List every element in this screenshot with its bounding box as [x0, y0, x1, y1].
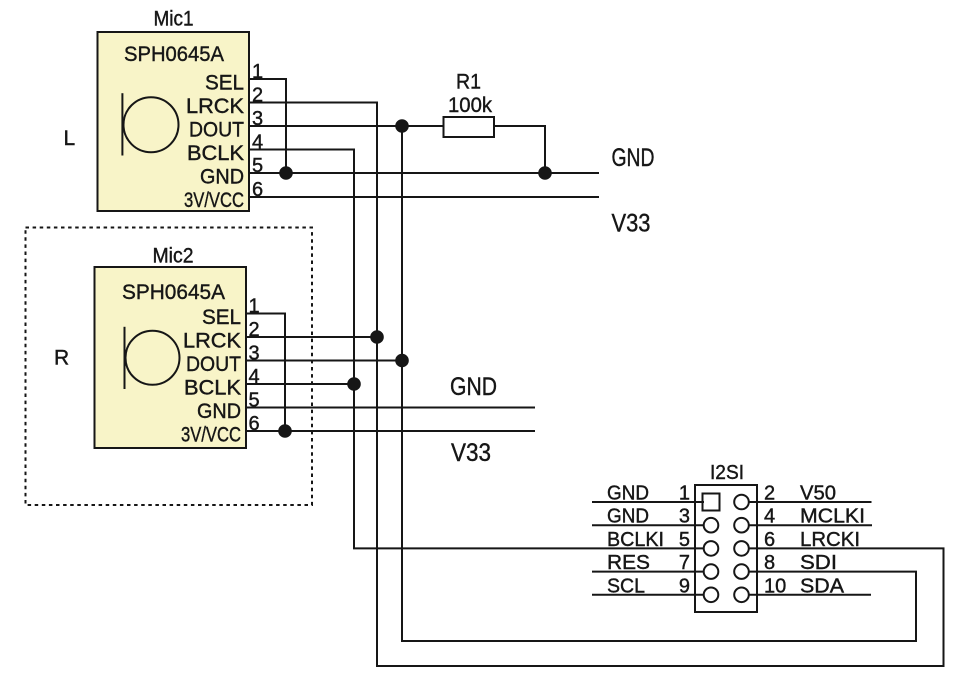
svg-text:6: 6: [764, 529, 775, 551]
I2SI pin 1 square pad: [703, 494, 720, 511]
junction dot Mic2 LRCK net: [370, 330, 384, 344]
svg-text:DOUT: DOUT: [186, 353, 241, 376]
wire Mic2 GND to net label: [246, 407, 535, 409]
wire net LRCK: Mic1 LRCK down and around to I2SI pin 6 LRCKI: [249, 103, 944, 667]
wire Mic2 BCLK to BCLK net: [246, 383, 354, 385]
wire I2SI pin 4 MCLKI stub: [749, 524, 872, 526]
wire I2SI pin 3 GND stub: [592, 524, 704, 526]
svg-text:RES: RES: [607, 552, 650, 574]
svg-text:BCLK: BCLK: [187, 142, 244, 165]
resistor R1 right lead down to GND wire: [494, 126, 545, 173]
junction dot Mic1 SEL/GND: [279, 166, 293, 180]
svg-text:GND: GND: [612, 144, 655, 172]
svg-text:V50: V50: [800, 483, 836, 505]
I2SI pin 3 pad: [704, 518, 719, 533]
wire net DOUT: down and around to I2SI pin 8 SDI: [402, 126, 916, 641]
I2SI pin 5 pad: [704, 541, 719, 556]
I2SI pin 10 pad: [734, 588, 749, 603]
wire I2SI pin 7 RES stub: [592, 571, 704, 573]
svg-text:V33: V33: [612, 210, 651, 238]
svg-text:Mic1: Mic1: [154, 8, 194, 31]
svg-text:100k: 100k: [448, 94, 492, 117]
wire Mic1 DOUT to R1 left lead: [249, 125, 444, 127]
svg-text:LRCKI: LRCKI: [800, 529, 860, 551]
svg-text:BCLKI: BCLKI: [607, 529, 664, 551]
wire I2SI pin 2 V50 stub: [749, 501, 872, 503]
svg-text:BCLK: BCLK: [184, 377, 241, 400]
microphone Mic1 body (SPH0645A): [98, 32, 250, 211]
wire Mic2 DOUT to DOUT net: [246, 360, 402, 362]
svg-text:10: 10: [764, 575, 786, 597]
svg-text:SPH0645A: SPH0645A: [124, 43, 224, 66]
svg-text:1: 1: [679, 483, 690, 505]
Mic1 mic symbol diaphragm line: [121, 93, 123, 155]
svg-text:2: 2: [764, 483, 775, 505]
svg-text:LRCK: LRCK: [183, 330, 241, 353]
wire I2SI pin 9 SCL stub: [592, 594, 704, 596]
svg-text:GND: GND: [200, 166, 244, 189]
svg-text:Mic2: Mic2: [153, 245, 194, 268]
Mic2 mic symbol circle: [126, 331, 180, 385]
svg-text:SEL: SEL: [202, 306, 241, 329]
svg-text:8: 8: [764, 552, 775, 574]
wire net BCLK: Mic1 BCLK down to I2SI pin 5 BCLKI: [249, 150, 704, 549]
svg-text:R: R: [54, 347, 69, 370]
svg-text:V33: V33: [451, 439, 491, 467]
svg-text:5: 5: [679, 529, 690, 551]
I2SI pin 7 pad: [704, 564, 719, 579]
svg-text:SDA: SDA: [800, 575, 845, 597]
svg-text:GND: GND: [450, 373, 497, 401]
svg-text:I2SI: I2SI: [710, 462, 744, 484]
wire I2SI pin 1 GND stub: [592, 501, 704, 503]
junction dot R1/GND: [538, 166, 552, 180]
wire Mic2 SEL tie to 3V/VCC row: [246, 314, 285, 432]
svg-text:GND: GND: [607, 506, 649, 528]
junction dot Mic1 DOUT net: [395, 119, 409, 133]
svg-text:MCLKI: MCLKI: [800, 506, 865, 528]
svg-text:SCL: SCL: [607, 575, 645, 597]
svg-text:R1: R1: [456, 71, 481, 94]
connector I2SI body: [695, 485, 757, 612]
svg-text:GND: GND: [197, 400, 241, 423]
wire Mic2 LRCK to LRCK net: [246, 336, 377, 338]
Mic1 mic symbol circle: [124, 97, 179, 152]
I2SI pin 6 pad: [734, 541, 749, 556]
svg-text:L: L: [64, 127, 76, 150]
Mic2 mic symbol diaphragm line: [124, 327, 126, 389]
wire Mic1 SEL tie to GND row: [249, 79, 286, 173]
svg-text:LRCK: LRCK: [186, 95, 244, 118]
I2SI pin 8 pad: [734, 564, 749, 579]
svg-text:SDI: SDI: [800, 552, 837, 574]
svg-text:GND: GND: [607, 483, 649, 505]
svg-text:SPH0645A: SPH0645A: [122, 281, 225, 304]
wire Mic2 3V/VCC to net label: [246, 430, 535, 432]
dashed enclosure around Mic2: [26, 228, 313, 506]
wire I2SI pin 10 SDA stub: [749, 594, 871, 596]
wire Mic1 GND to net label: [249, 172, 599, 174]
microphone Mic2 body (SPH0645A): [95, 267, 247, 448]
svg-text:SEL: SEL: [205, 72, 244, 95]
junction dot Mic2 DOUT net: [395, 354, 409, 368]
svg-text:3: 3: [679, 506, 690, 528]
svg-text:7: 7: [679, 552, 690, 574]
svg-text:3V/VCC: 3V/VCC: [181, 424, 241, 447]
junction dot Mic2 SEL/VCC: [278, 424, 292, 438]
I2SI pin 9 pad: [704, 588, 719, 603]
junction dot Mic2 BCLK net: [347, 377, 361, 391]
I2SI pin 2 pad: [734, 495, 749, 510]
wire Mic1 3V/VCC to net label: [249, 196, 599, 198]
svg-text:4: 4: [764, 506, 775, 528]
resistor R1 body: [444, 117, 495, 137]
I2SI pin 4 pad: [734, 518, 749, 533]
svg-text:3V/VCC: 3V/VCC: [184, 189, 244, 212]
svg-text:DOUT: DOUT: [189, 119, 244, 142]
svg-text:9: 9: [679, 575, 690, 597]
